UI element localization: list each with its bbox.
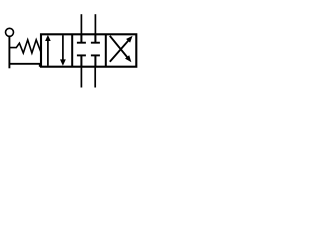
down arrow (box 1) [60, 35, 66, 66]
crossed arrow to top-right (box 3) [110, 36, 133, 62]
port P stub [80, 67, 82, 88]
blocked port top-right [91, 34, 100, 42]
crossed arrow to bottom-right (box 3) [110, 36, 132, 62]
divider 2 [105, 34, 107, 66]
blocked port bottom-left [77, 55, 86, 66]
blocked port bottom-right [91, 55, 100, 66]
spring [9, 40, 40, 53]
valve body [41, 34, 136, 66]
up arrow (box 1) [45, 35, 51, 66]
blocked port top-left [77, 34, 86, 42]
knob circle [6, 28, 14, 36]
actuator frame bottom [9, 64, 39, 67]
port B stub [94, 14, 96, 34]
port A stub [80, 14, 82, 34]
plunger stem [8, 36, 10, 68]
port T stub [94, 67, 96, 88]
divider 1 [71, 34, 73, 66]
